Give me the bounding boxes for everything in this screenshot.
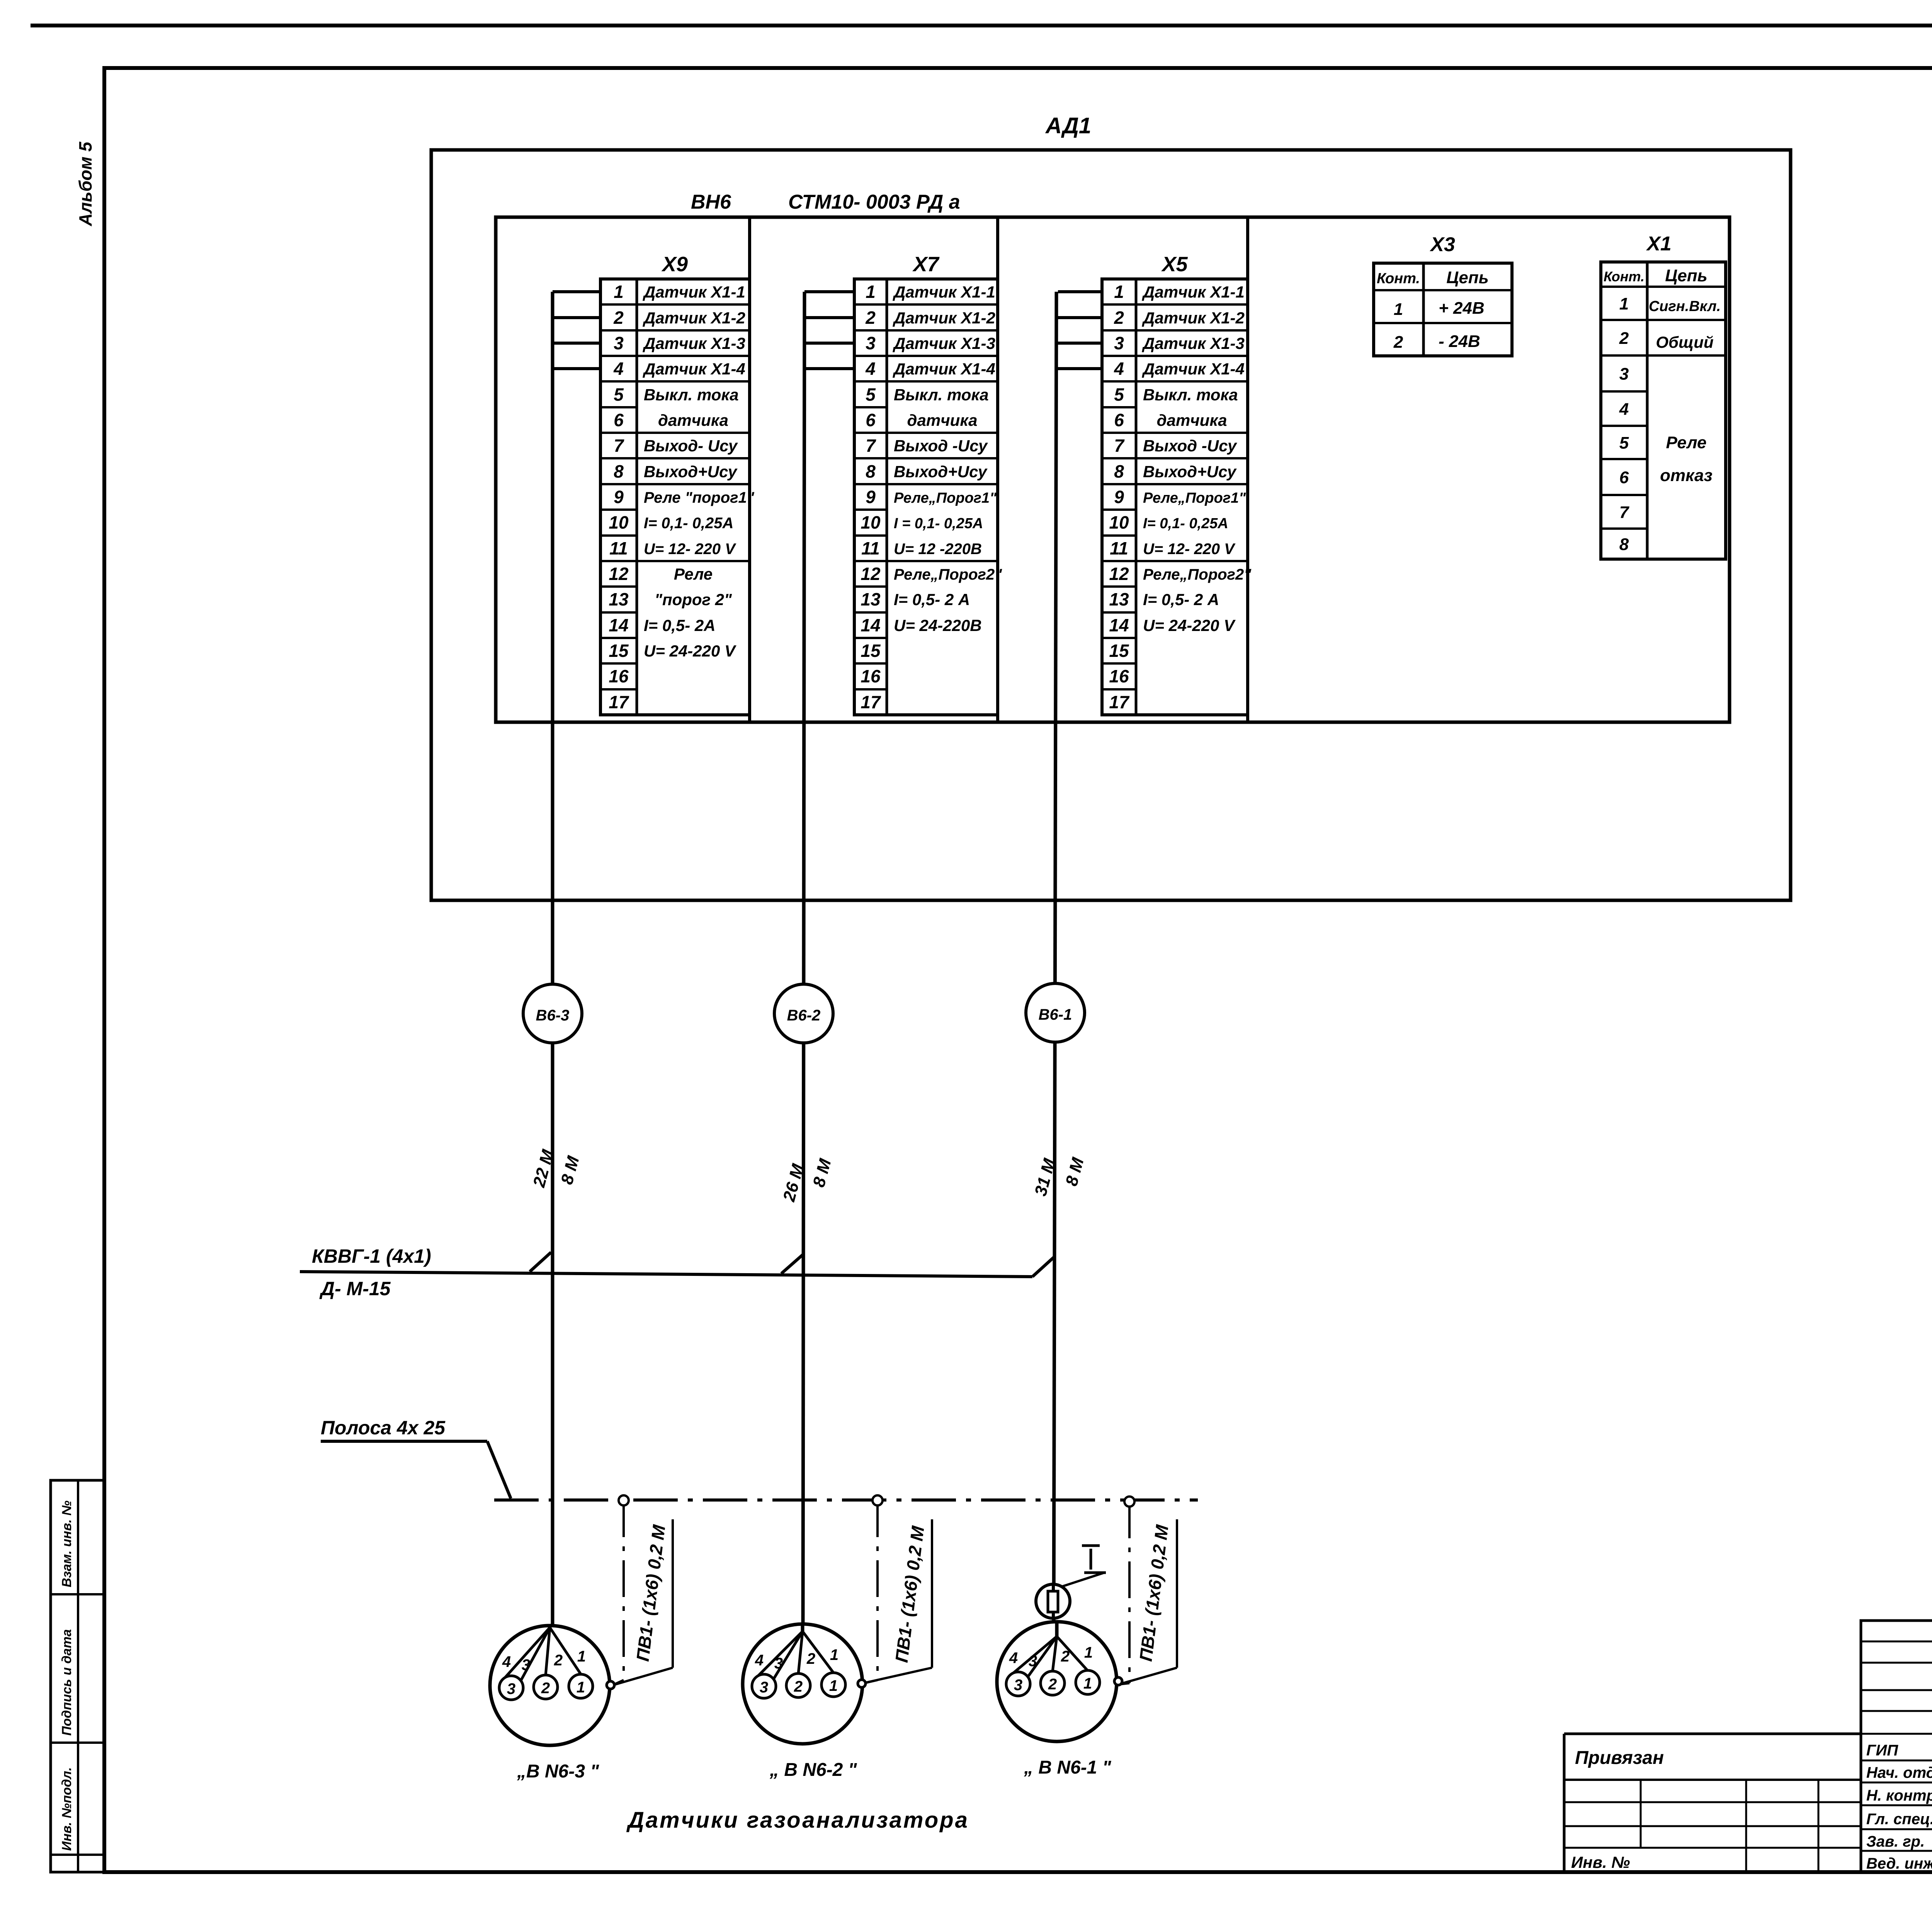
svg-text:10: 10 <box>861 512 881 532</box>
svg-text:17: 17 <box>1109 692 1130 712</box>
svg-text:„В N6-3 ": „В N6-3 " <box>517 1761 599 1782</box>
gas sensor B N6-1 <box>997 1621 1122 1742</box>
svg-text:4: 4 <box>613 359 624 379</box>
svg-text:датчика: датчика <box>907 411 978 429</box>
svg-text:Выход+Uсу: Выход+Uсу <box>644 463 738 481</box>
conduit drop B6-2 top junction marker <box>872 1495 883 1505</box>
svg-text:2: 2 <box>1393 333 1403 352</box>
svg-text:Датчик Х1-1: Датчик Х1-1 <box>893 283 995 301</box>
svg-text:Выкл. тока: Выкл. тока <box>1143 386 1238 404</box>
svg-text:Конт.: Конт. <box>1604 269 1645 284</box>
conduit tail B6-1 <box>1119 1683 1129 1684</box>
svg-text:Датчик Х1-3: Датчик Х1-3 <box>893 334 995 352</box>
svg-text:2: 2 <box>1619 329 1629 348</box>
svg-text:8: 8 <box>1619 535 1629 554</box>
svg-text:Реле: Реле <box>1666 433 1706 452</box>
conduit drop B6-3 <box>622 1500 625 1680</box>
left attribute row divider 1 <box>51 1593 104 1595</box>
svg-text:I= 0,5- 2 А: I= 0,5- 2 А <box>894 590 970 609</box>
svg-text:Датчик Х1-2: Датчик Х1-2 <box>893 309 995 327</box>
conduit drop B6-1 <box>1128 1502 1131 1683</box>
branch tick at B6-2 <box>781 1254 804 1274</box>
wire stubs X7 pins 1-4 <box>804 292 854 369</box>
svg-text:3: 3 <box>614 333 624 353</box>
svg-text:КВВГ-1 (4х1): КВВГ-1 (4х1) <box>312 1245 431 1267</box>
svg-text:1: 1 <box>1114 282 1124 302</box>
cable tag circle B6-2 <box>774 984 833 1043</box>
svg-text:АД1: АД1 <box>1045 113 1091 138</box>
svg-text:6: 6 <box>614 410 624 430</box>
svg-text:Выкл. тока: Выкл. тока <box>644 386 739 404</box>
svg-text:U= 12- 220 V: U= 12- 220 V <box>1143 541 1236 558</box>
svg-text:СТМ10- 0003 РД а: СТМ10- 0003 РД а <box>788 191 960 213</box>
conduit drop B6-3 top junction marker <box>619 1495 629 1505</box>
svg-text:1: 1 <box>1394 300 1403 319</box>
svg-text:ВН6: ВН6 <box>691 191 731 213</box>
cable tag circle B6-1 <box>1026 983 1085 1042</box>
cable wire B6-1 vertical <box>1054 292 1056 1636</box>
svg-text:U= 24-220 V: U= 24-220 V <box>644 642 736 660</box>
cable wire B6-3 vertical <box>551 292 554 1628</box>
connector X5 <box>1102 253 1252 715</box>
svg-text:Датчик Х1-1: Датчик Х1-1 <box>1142 283 1245 301</box>
svg-text:3: 3 <box>760 1679 768 1696</box>
svg-text:Инв. №подл.: Инв. №подл. <box>60 1767 74 1851</box>
svg-text:Взам. инв. №: Взам. инв. № <box>60 1500 74 1587</box>
svg-text:8: 8 <box>614 461 624 481</box>
svg-text:1: 1 <box>1084 1644 1093 1661</box>
svg-text:12: 12 <box>1109 564 1129 584</box>
svg-text:2: 2 <box>554 1652 563 1669</box>
Polosa label underline <box>321 1440 487 1443</box>
svg-text:U= 24-220В: U= 24-220В <box>894 616 982 634</box>
wire stubs X9 pins 1-4 <box>553 292 600 369</box>
svg-text:U= 24-220 V: U= 24-220 V <box>1143 616 1236 634</box>
svg-text:17: 17 <box>861 692 881 712</box>
svg-text:Датчик Х1-4: Датчик Х1-4 <box>893 360 995 378</box>
svg-text:В6-3: В6-3 <box>536 1007 570 1024</box>
connector X3 <box>1374 233 1512 356</box>
cable tag circle B6-3 <box>523 984 582 1043</box>
left attribute row divider 3 <box>51 1854 104 1856</box>
svg-text:3: 3 <box>866 333 876 353</box>
inner box compartment divider 2 <box>996 217 999 722</box>
svg-text:9: 9 <box>1114 487 1124 507</box>
svg-text:Н. контр.: Н. контр. <box>1866 1787 1932 1804</box>
svg-text:Конт.: Конт. <box>1377 270 1420 287</box>
svg-text:6: 6 <box>1114 410 1124 430</box>
cable wire B6-2 vertical <box>803 292 804 1631</box>
svg-text:12: 12 <box>861 564 881 584</box>
svg-text:- 24В: - 24В <box>1439 332 1480 351</box>
svg-text:Цепь: Цепь <box>1446 268 1489 287</box>
svg-text:Д- М-15: Д- М-15 <box>319 1278 391 1299</box>
svg-text:3: 3 <box>774 1655 783 1672</box>
trunk cable horizontal wire <box>300 1272 1032 1277</box>
inner box compartment divider 3 <box>1246 217 1249 722</box>
svg-text:4: 4 <box>755 1652 764 1669</box>
wire stubs X5 pins 1-4 <box>1058 292 1102 369</box>
svg-text:2: 2 <box>865 308 876 328</box>
svg-text:2: 2 <box>1048 1676 1057 1693</box>
mounting strip dash-dot line <box>494 1498 1198 1502</box>
svg-text:3: 3 <box>1029 1653 1037 1670</box>
svg-text:Выход+Uсу: Выход+Uсу <box>894 463 988 481</box>
svg-text:Реле„Порог2": Реле„Порог2" <box>894 566 1002 583</box>
svg-text:В6-2: В6-2 <box>787 1007 821 1024</box>
svg-text:14: 14 <box>861 615 880 635</box>
svg-text:датчика: датчика <box>658 411 728 429</box>
svg-text:11: 11 <box>861 538 880 558</box>
left attribute column divider <box>77 1480 79 1872</box>
svg-text:4: 4 <box>1114 359 1124 379</box>
svg-text:1: 1 <box>1619 294 1629 313</box>
svg-text:6: 6 <box>1619 468 1629 487</box>
svg-text:Выход- Uсу: Выход- Uсу <box>644 437 738 455</box>
svg-text:Реле„Порог2": Реле„Порог2" <box>1143 566 1252 583</box>
svg-text:5: 5 <box>866 384 876 405</box>
svg-text:16: 16 <box>609 666 629 686</box>
svg-text:1: 1 <box>1083 1675 1092 1692</box>
svg-text:8: 8 <box>1114 461 1124 481</box>
sheet outer border top <box>31 24 1932 27</box>
svg-text:8: 8 <box>866 461 876 481</box>
svg-text:1: 1 <box>577 1679 585 1696</box>
gas sensor B N6-3 <box>490 1625 614 1745</box>
svg-text:Датчик Х1-3: Датчик Х1-3 <box>643 334 745 352</box>
svg-text:11: 11 <box>1110 538 1128 558</box>
svg-text:отказ: отказ <box>1660 466 1713 485</box>
svg-text:Зав. гр.: Зав. гр. <box>1866 1833 1925 1850</box>
svg-text:I= 0,1- 0,25А: I= 0,1- 0,25А <box>644 515 733 532</box>
svg-text:U= 12- 220 V: U= 12- 220 V <box>644 541 736 558</box>
svg-text:I= 0,1- 0,25А: I= 0,1- 0,25А <box>1143 515 1228 532</box>
svg-text:Сигн.Вкл.: Сигн.Вкл. <box>1649 298 1721 315</box>
svg-text:16: 16 <box>1109 666 1129 686</box>
conduit drop B6-1 top junction marker <box>1124 1497 1134 1507</box>
flex conduit label PV1 B6-1 <box>1120 1519 1177 1684</box>
conduit tail B6-2 <box>862 1680 878 1684</box>
svg-text:Х1: Х1 <box>1646 233 1672 255</box>
svg-text:Выкл. тока: Выкл. тока <box>894 386 989 404</box>
svg-text:5: 5 <box>1619 434 1629 452</box>
svg-text:„ В N6-2 ": „ В N6-2 " <box>769 1760 857 1780</box>
svg-text:9: 9 <box>866 487 876 507</box>
conduit tail B6-3 <box>614 1680 624 1685</box>
svg-text:U= 12 -220В: U= 12 -220В <box>894 541 982 558</box>
svg-text:Датчик Х1-3: Датчик Х1-3 <box>1142 334 1245 352</box>
svg-text:15: 15 <box>1109 641 1129 661</box>
svg-text:Альбом 5: Альбом 5 <box>75 141 95 226</box>
svg-text:3: 3 <box>1114 333 1124 353</box>
svg-text:ГИП: ГИП <box>1866 1742 1898 1759</box>
svg-text:5: 5 <box>614 384 624 405</box>
left attribute row divider 2 <box>51 1742 104 1744</box>
svg-text:Выход -Uсу: Выход -Uсу <box>894 437 988 455</box>
svg-text:Привязан: Привязан <box>1575 1748 1664 1768</box>
svg-text:Нач. отд.: Нач. отд. <box>1866 1764 1932 1781</box>
connector X7 <box>854 253 1002 715</box>
svg-text:I = 0,1- 0,25А: I = 0,1- 0,25А <box>894 515 983 532</box>
gas sensor B N6-2 <box>743 1623 866 1744</box>
flex conduit label PV1 B6-2 <box>863 1519 932 1683</box>
svg-text:I= 0,5- 2А: I= 0,5- 2А <box>644 616 716 634</box>
flex conduit label PV1 B6-3 <box>614 1519 673 1685</box>
svg-text:Выход+Uсу: Выход+Uсу <box>1143 463 1237 481</box>
svg-text:1: 1 <box>577 1648 586 1665</box>
svg-text:14: 14 <box>609 615 628 635</box>
svg-text:7: 7 <box>614 435 624 456</box>
svg-text:3: 3 <box>507 1680 515 1697</box>
svg-text:13: 13 <box>861 589 881 609</box>
svg-text:Датчик Х1-2: Датчик Х1-2 <box>1142 309 1245 327</box>
svg-text:Датчик Х1-2: Датчик Х1-2 <box>643 309 745 327</box>
svg-text:Х7: Х7 <box>912 253 940 276</box>
svg-text:Датчик Х1-4: Датчик Х1-4 <box>643 360 745 378</box>
svg-text:1: 1 <box>829 1677 838 1694</box>
svg-text:5: 5 <box>1114 384 1124 405</box>
svg-text:Х5: Х5 <box>1161 253 1188 276</box>
svg-text:6: 6 <box>866 410 876 430</box>
left attribute column box <box>51 1480 104 1872</box>
section marker I on B6-1 cable <box>1036 1546 1106 1618</box>
svg-text:2: 2 <box>1061 1648 1070 1665</box>
svg-text:Реле„Порог1": Реле„Порог1" <box>1143 490 1246 506</box>
svg-text:Полоса 4х 25: Полоса 4х 25 <box>321 1417 446 1439</box>
svg-text:2: 2 <box>794 1678 803 1695</box>
svg-text:12: 12 <box>609 564 629 584</box>
svg-text:2: 2 <box>1114 308 1124 328</box>
svg-text:4: 4 <box>1619 400 1629 419</box>
svg-text:Х9: Х9 <box>661 253 688 276</box>
svg-text:9: 9 <box>614 487 624 507</box>
svg-text:4: 4 <box>1009 1650 1018 1667</box>
svg-text:Подпись и дата: Подпись и дата <box>60 1629 74 1736</box>
inner box compartment divider 1 <box>748 217 751 722</box>
svg-text:Реле "порог1": Реле "порог1" <box>644 489 755 506</box>
Polosa leader diagonal <box>487 1441 511 1498</box>
device AD1 enclosure box <box>431 150 1791 900</box>
svg-text:Вед. инж.: Вед. инж. <box>1866 1855 1932 1872</box>
branch tick at B6-3 <box>530 1252 551 1272</box>
svg-text:3: 3 <box>1619 365 1629 384</box>
svg-text:13: 13 <box>1109 589 1129 609</box>
svg-text:Цепь: Цепь <box>1665 266 1708 285</box>
svg-text:11: 11 <box>609 538 628 558</box>
svg-text:Датчики газоанализатора: Датчики газоанализатора <box>626 1808 969 1833</box>
svg-text:В6-1: В6-1 <box>1039 1006 1072 1023</box>
svg-text:I= 0,5- 2 А: I= 0,5- 2 А <box>1143 590 1219 609</box>
svg-text:+ 24В: + 24В <box>1439 299 1485 318</box>
svg-text:Датчик Х1-1: Датчик Х1-1 <box>643 283 745 301</box>
svg-text:4: 4 <box>502 1653 511 1670</box>
svg-text:2: 2 <box>806 1650 815 1667</box>
svg-text:Реле„Порог1": Реле„Порог1" <box>894 490 997 506</box>
svg-text:15: 15 <box>609 641 629 661</box>
svg-text:10: 10 <box>1109 512 1129 532</box>
svg-text:„ В N6-1 ": „ В N6-1 " <box>1024 1757 1112 1778</box>
svg-text:Инв. №: Инв. № <box>1571 1853 1630 1871</box>
svg-text:Реле: Реле <box>674 565 713 583</box>
svg-text:17: 17 <box>609 692 629 712</box>
svg-text:Гл. спец.: Гл. спец. <box>1866 1811 1932 1828</box>
svg-text:3: 3 <box>1014 1677 1022 1694</box>
svg-text:"порог 2": "порог 2" <box>655 590 732 609</box>
svg-text:15: 15 <box>861 641 881 661</box>
svg-text:2: 2 <box>541 1680 550 1697</box>
svg-text:Х3: Х3 <box>1429 233 1455 256</box>
svg-text:14: 14 <box>1109 615 1129 635</box>
conduit drop B6-2 <box>876 1500 879 1680</box>
svg-text:Датчик Х1-4: Датчик Х1-4 <box>1142 360 1245 378</box>
svg-text:7: 7 <box>1114 435 1125 456</box>
svg-text:Выход -Uсу: Выход -Uсу <box>1143 437 1238 455</box>
svg-text:10: 10 <box>609 512 629 532</box>
svg-text:4: 4 <box>865 359 876 379</box>
svg-text:7: 7 <box>1619 503 1630 522</box>
svg-text:1: 1 <box>866 282 876 302</box>
svg-text:1: 1 <box>614 282 624 302</box>
svg-text:3: 3 <box>522 1656 530 1673</box>
svg-text:7: 7 <box>866 435 876 456</box>
connector X9 <box>600 253 755 715</box>
connector X1 <box>1601 233 1726 559</box>
svg-text:13: 13 <box>609 589 629 609</box>
title block <box>1564 1621 1932 1872</box>
svg-text:2: 2 <box>613 308 624 328</box>
svg-text:1: 1 <box>830 1646 838 1663</box>
svg-text:16: 16 <box>861 666 881 686</box>
svg-text:Общий: Общий <box>1656 333 1713 351</box>
svg-text:датчика: датчика <box>1157 411 1227 429</box>
device VN6 STM10 inner box <box>496 217 1730 722</box>
branch tick at B6-1 <box>1032 1257 1054 1277</box>
